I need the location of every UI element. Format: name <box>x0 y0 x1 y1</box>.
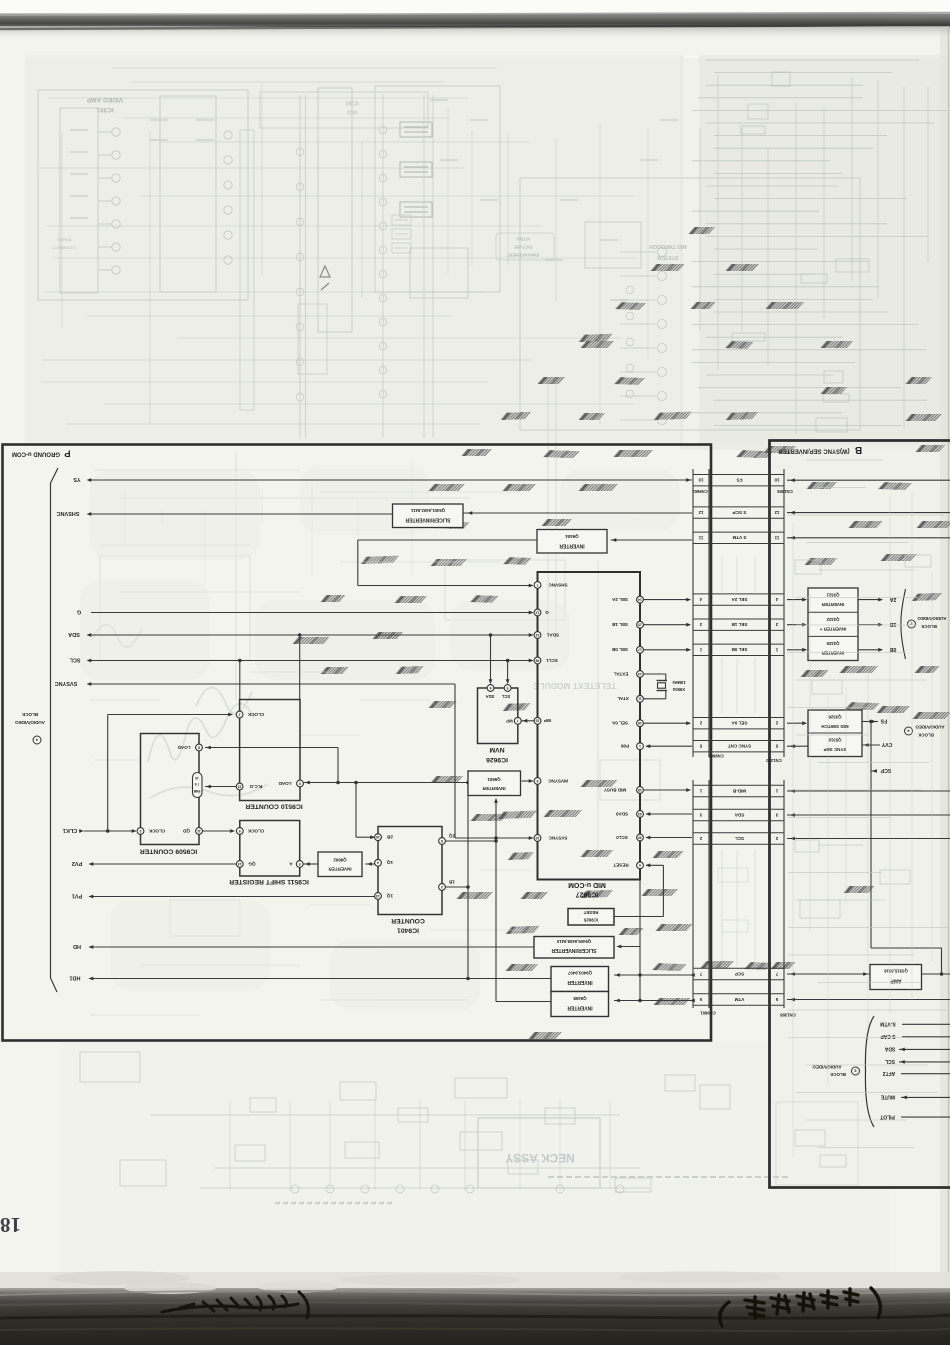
svg-text:Q3321: Q3321 <box>826 593 840 598</box>
wire WP <box>522 720 535 722</box>
svg-text:(W)SYNC SEP,INVERTER: (W)SYNC SEP,INVERTER <box>778 448 850 454</box>
riser SCL to IC9510 <box>239 661 241 700</box>
svg-text:SHSVNC: SHSVNC <box>57 510 80 516</box>
pin 15 SEL 1B <box>637 621 644 628</box>
svg-text:SYNC SEP: SYNC SEP <box>824 747 847 752</box>
wire riser496 to Q9408 <box>496 1001 551 1003</box>
svg-text:P.CONNECT: P.CONNECT <box>52 246 76 251</box>
connector row SCP pin 7 <box>693 967 784 969</box>
svg-text:VIDEO AMP: VIDEO AMP <box>86 96 123 103</box>
svg-text:SDA: SDA <box>486 694 495 699</box>
svg-text:S CAP: S CAP <box>880 1033 896 1039</box>
svg-text:ENB: ENB <box>193 789 200 793</box>
amp Q3315,3316 <box>870 965 922 990</box>
svg-text:X9504: X9504 <box>672 687 685 692</box>
svg-text:Q9404: Q9404 <box>565 534 579 539</box>
ghost mid verticals and circles <box>240 92 634 438</box>
wire VTM out <box>787 999 950 1001</box>
ghost bleed-through schematic (upper area) <box>38 60 947 434</box>
wire SEL 1B <box>644 624 691 626</box>
ghost bleed-through (right box interior) <box>788 460 948 1167</box>
svg-text:IC9627: IC9627 <box>576 891 599 898</box>
svg-text:MVSYNC: MVSYNC <box>547 778 567 783</box>
svg-text:AFT2: AFT2 <box>883 1070 896 1076</box>
svg-text:GROUND u-COM: GROUND u-COM <box>12 451 60 457</box>
ghost lines (left box interior) <box>90 459 530 1015</box>
wire 2A <box>858 599 882 601</box>
ghost box (bottom right) <box>776 1102 858 1185</box>
svg-text:WP: WP <box>544 718 551 723</box>
svg-text:SDA0: SDA0 <box>615 811 628 816</box>
crystal X9504 <box>644 673 666 675</box>
svg-text:HD: HD <box>73 943 81 949</box>
handwritten scribble (bottom right) <box>720 1288 881 1326</box>
svg-text:Q3322: Q3322 <box>826 617 840 622</box>
svg-text:IC9509 COUNTER: IC9509 COUNTER <box>140 848 198 855</box>
svg-text:17: 17 <box>638 648 642 652</box>
pin 13 EXTAL <box>637 671 644 678</box>
wire MID BUSY <box>644 789 691 791</box>
svg-text:18: 18 <box>638 788 642 792</box>
connector row SEL 1B pin 3 <box>693 618 784 620</box>
wire HD1 <box>89 978 551 980</box>
svg-text:S VTM: S VTM <box>732 535 746 540</box>
riser x468 <box>467 783 469 979</box>
wire CN 11 to Q9404 <box>611 539 693 541</box>
pin 8 2Q (IC9401) <box>439 838 446 845</box>
svg-text:6: 6 <box>489 686 491 690</box>
svg-text:RESET: RESET <box>613 863 629 868</box>
wire SCL0 <box>646 837 692 839</box>
svg-text:SDA: SDA <box>68 631 80 637</box>
ghost handwriting squiggles <box>92 624 268 798</box>
pin 13 QG (IC9511) <box>236 861 243 868</box>
svg-text:11: 11 <box>698 535 703 540</box>
inverter Q9601 <box>468 771 521 796</box>
svg-text:BLOCK: BLOCK <box>920 624 936 629</box>
wire 2Q <box>446 840 497 842</box>
svg-text:CN9602: CN9602 <box>692 489 708 494</box>
svg-text:VCU: VCU <box>346 108 357 114</box>
svg-text:39: 39 <box>638 835 642 839</box>
wire SCL <box>91 660 533 662</box>
svg-text:IC9510 COUNTER: IC9510 COUNTER <box>245 803 303 810</box>
svg-text:7 6: 7 6 <box>195 782 200 786</box>
svg-text:PILOT: PILOT <box>880 1113 895 1119</box>
wire IC9509 LOAD <box>205 747 338 749</box>
wire S SCP out <box>787 512 950 514</box>
pin 41 SDA1 <box>534 632 541 639</box>
scan artifact hatch marks <box>688 227 715 234</box>
wire SEL 0B <box>644 649 691 651</box>
label AUDIO/VIDEO BLOCK 2 <box>908 620 916 628</box>
wire SHSYNC to slicer <box>91 513 393 515</box>
ghost small component boxes <box>400 122 432 217</box>
page edge bar (top) <box>0 14 950 27</box>
wire SDA0 <box>646 813 692 815</box>
wire LOAD bus <box>304 782 469 784</box>
svg-text:LOAD: LOAD <box>177 745 191 750</box>
pin 14 SEL 2A <box>637 596 644 603</box>
svg-text:CN1309: CN1309 <box>777 489 793 494</box>
svg-text:3: 3 <box>139 829 141 833</box>
scan mottling (left box interior) <box>80 465 680 1010</box>
wire SCP row to Q9403 <box>614 974 692 976</box>
wire Q9602 to A <box>304 863 319 865</box>
pin 10 SVSYNC <box>534 835 541 842</box>
svg-text:Q9401,9402,9411: Q9401,9402,9411 <box>410 508 445 513</box>
svg-text:SEL 0B: SEL 0B <box>731 647 748 652</box>
pin 39 SCL0 <box>637 834 644 841</box>
pin 43 SDA0 <box>637 811 644 818</box>
svg-text:16: 16 <box>376 835 380 839</box>
brace audio/video block 2 <box>901 589 906 659</box>
svg-text:5: 5 <box>299 862 301 866</box>
counter IC9509 <box>141 734 200 845</box>
svg-text:11: 11 <box>197 829 201 833</box>
pin 16 2B (IC9401) <box>375 834 382 841</box>
wire SEL 0A <box>644 722 691 724</box>
pin 16 SEL 0A <box>637 720 644 727</box>
pin 20 WP <box>534 717 541 724</box>
ghost rails between strips <box>718 556 755 966</box>
svg-text:SOUND: SOUND <box>57 238 72 243</box>
svg-text:YS: YS <box>73 476 81 482</box>
pin 12 G <box>534 609 541 616</box>
svg-text:G: G <box>77 609 81 615</box>
svg-text:VTM: VTM <box>734 997 744 1002</box>
svg-text:MUTE: MUTE <box>880 1094 895 1100</box>
wire SCP row to AMP <box>787 973 870 975</box>
counter IC9401 <box>378 827 442 915</box>
svg-text:IC9626: IC9626 <box>486 756 508 763</box>
pin 15 R.C.O (IC9510) <box>236 783 243 790</box>
wire PV2 <box>89 863 237 865</box>
wire S VTM out <box>787 537 950 539</box>
svg-text:WP: WP <box>506 718 513 723</box>
wire SEL 2A to Q3321 <box>787 599 806 601</box>
svg-text:8: 8 <box>198 745 200 749</box>
svg-text:2A: 2A <box>889 596 896 602</box>
pin 2 CLOCK (IC9510) <box>236 711 243 718</box>
svg-text:TELETEXT MODULE: TELETEXT MODULE <box>533 681 616 691</box>
pin 7 WP (IC9626) <box>514 717 521 724</box>
svg-text:PV2: PV2 <box>72 860 82 866</box>
svg-text:LOAD: LOAD <box>278 781 292 786</box>
counter IC9510 <box>240 700 300 801</box>
svg-text:MID SWITCH: MID SWITCH <box>821 724 848 729</box>
svg-text:SDA1: SDA1 <box>546 632 559 637</box>
wire CVY <box>862 744 880 746</box>
pin 9 CLOCK (IC9511) <box>236 828 243 835</box>
svg-text:FS: FS <box>737 478 743 483</box>
svg-text:Q9601: Q9601 <box>487 777 501 782</box>
ghost caption lines <box>548 1176 788 1178</box>
svg-text:QD: QD <box>182 828 190 833</box>
signal bracket (left) <box>51 468 59 992</box>
svg-text:11: 11 <box>638 697 642 701</box>
svg-text:PICTURE: PICTURE <box>514 245 533 250</box>
mid switch / sync sep Q3326 Q5310 <box>808 710 862 757</box>
svg-text:SCL0: SCL0 <box>616 835 628 840</box>
connector row SEL 0B pin 1 <box>693 643 784 645</box>
svg-text:R.C.O: R.C.O <box>249 784 262 789</box>
nvm IC9626 <box>478 688 518 744</box>
svg-text:13: 13 <box>638 672 642 676</box>
svg-text:PV1: PV1 <box>72 893 82 899</box>
svg-text:16: 16 <box>638 721 642 725</box>
svg-text:11: 11 <box>774 535 779 540</box>
block frame B SYNC SEP.INVERTER <box>770 441 950 1188</box>
pin 1 P06 <box>637 743 644 750</box>
svg-text:13: 13 <box>238 862 242 866</box>
svg-text:QG: QG <box>248 861 256 866</box>
mcu IC9627 MID u-COM <box>538 572 641 880</box>
wire SCP stub <box>871 770 877 772</box>
label AUDIO/VIDEO BLOCK 4 (right) <box>905 727 913 735</box>
wire VTM row to Q9408 <box>614 1000 692 1002</box>
wire 0B <box>858 649 882 651</box>
svg-text:0B: 0B <box>889 646 896 652</box>
svg-text:15: 15 <box>638 623 642 627</box>
svg-text:SLICER/INVERTER: SLICER/INVERTER <box>405 516 450 522</box>
svg-text:ENHANCEMENT: ENHANCEMENT <box>506 253 539 258</box>
riser from MID corner x640 <box>639 880 641 1001</box>
pin 2 1B (IC9401) <box>439 884 446 891</box>
svg-text:BLOCK: BLOCK <box>21 712 38 717</box>
wire SEL 0A to Q3326 <box>787 722 806 724</box>
svg-text:CN9603: CN9603 <box>708 754 724 759</box>
svg-text:SCL: SCL <box>69 657 81 663</box>
inverter bank Q3321/Q3322/Q3325 <box>808 588 858 661</box>
svg-text:COUNTER: COUNTER <box>391 917 425 924</box>
svg-text:SCP: SCP <box>735 971 744 976</box>
svg-text:10: 10 <box>536 836 540 840</box>
wire MUTE <box>901 1096 950 1098</box>
inverter Q9403,9407 <box>551 967 609 992</box>
label AUDIO/VIDEO BLOCK 3 <box>852 1067 860 1075</box>
wire AMP out <box>922 973 950 975</box>
connector row S SCP pin 12 <box>693 506 784 508</box>
svg-text:10MHz: 10MHz <box>672 680 685 685</box>
svg-text:9: 9 <box>299 781 301 785</box>
svg-text:1: 1 <box>639 744 641 748</box>
svg-text:AUDIO/VIDEO: AUDIO/VIDEO <box>15 720 45 725</box>
pin 48 SCL1 <box>534 657 541 664</box>
svg-text:SYSTEM: SYSTEM <box>657 254 678 260</box>
connector row SYNC CNT pin 5 <box>693 740 784 742</box>
pin 11 QD (IC9509) <box>196 828 203 835</box>
svg-text:BLOCK: BLOCK <box>917 733 933 738</box>
svg-text:12: 12 <box>536 610 540 614</box>
wire PILOT <box>901 1116 950 1118</box>
ghost bleed-through schematic (lower area) <box>80 1052 730 1193</box>
svg-text:CLK1: CLK1 <box>63 827 77 833</box>
pin 3 CLOCK (IC9509) <box>137 828 144 835</box>
svg-text:CN1310: CN1310 <box>766 758 782 763</box>
wire SCL (right) <box>899 1061 950 1063</box>
svg-text:2: 2 <box>441 885 443 889</box>
wire S-VTM <box>902 1023 950 1025</box>
wire SYNC CNT from Q5310 <box>787 745 808 747</box>
svg-text:15: 15 <box>238 784 242 788</box>
wire HD <box>89 946 534 948</box>
inverter Q9408 <box>551 992 609 1017</box>
svg-text:IC351: IC351 <box>345 99 359 105</box>
svg-text:Q3325: Q3325 <box>826 641 840 646</box>
svg-text:1B: 1B <box>889 621 896 627</box>
svg-text:18: 18 <box>0 1213 21 1237</box>
svg-text:1Q: 1Q <box>387 893 394 898</box>
connector rails CN9602/CN1309 <box>692 469 694 757</box>
wire FS riser to AMP line <box>870 722 872 949</box>
wire YS <box>91 479 692 481</box>
wire PV1 <box>89 896 375 898</box>
svg-text:Q9602: Q9602 <box>333 858 347 863</box>
svg-text:1B: 1B <box>448 879 455 884</box>
wire 1B <box>446 886 469 888</box>
connector row SEL 2A pin 4 <box>693 593 784 595</box>
svg-text:SDA: SDA <box>734 812 744 817</box>
wire G <box>91 612 533 614</box>
pin 17 SEL 0B <box>637 646 644 653</box>
svg-text:12: 12 <box>698 510 703 515</box>
inverter Q9602 <box>318 852 362 877</box>
pin 8 LOAD (IC9509) <box>196 744 203 751</box>
svg-text:XTAL: XTAL <box>617 696 629 701</box>
page edge band (bottom) <box>0 1272 950 1290</box>
pin 9 LOAD (IC9510) <box>297 780 304 787</box>
svg-text:IC9511 SHIFT REGISTER: IC9511 SHIFT REGISTER <box>229 878 309 885</box>
svg-text:SEL 1B: SEL 1B <box>731 622 748 627</box>
connector row SDA pin 3 <box>693 808 784 810</box>
riser x496 (Q9601 feed) <box>495 799 497 1002</box>
svg-text:4: 4 <box>377 861 379 865</box>
block frame P GROUND u-COM <box>3 445 712 1041</box>
ghost triangle mark <box>320 266 330 277</box>
svg-text:EXTAL: EXTAL <box>613 671 628 676</box>
wire SDA <box>91 634 533 636</box>
pin 5 SCL (IC9626) <box>504 685 511 692</box>
pin 9 RESET <box>637 862 644 869</box>
wire Q9404 output to SHSYNC pin <box>358 539 537 541</box>
pin 18 MID BUSY <box>637 787 644 794</box>
wire SEL 2A <box>644 599 691 601</box>
svg-text:SEL 0B: SEL 0B <box>611 647 628 652</box>
svg-text:B: B <box>855 444 862 455</box>
wire P06 from SYNC CNT <box>646 745 692 747</box>
wire AFT2 <box>901 1073 950 1075</box>
svg-text:10: 10 <box>195 776 199 780</box>
pin 4 1Q (IC9401) <box>375 859 382 866</box>
wire SEL 1B to Q3322 <box>787 624 806 626</box>
brace audio/video block 3 <box>865 1016 874 1127</box>
connector row MID-B pin 1 <box>693 784 784 786</box>
svg-text:2: 2 <box>239 712 241 716</box>
svg-text:SHSVNC: SHSVNC <box>548 582 568 587</box>
pin 6 SDA (IC9626) <box>487 685 494 692</box>
slicer-inverter Q9401,9402,9411 <box>393 504 464 528</box>
wire IC9401 1Q to Q9602 <box>366 863 375 865</box>
svg-text:2B: 2B <box>386 835 393 840</box>
svg-text:SCL: SCL <box>735 836 744 841</box>
svg-text:BLOCK: BLOCK <box>829 1072 845 1077</box>
svg-text:IC301: IC301 <box>96 106 114 113</box>
svg-text:7: 7 <box>517 719 519 723</box>
ghost bleed-through (main block interior) <box>100 380 660 936</box>
wire SDA (right) <box>899 1048 950 1050</box>
svg-text:SEL 0A: SEL 0A <box>611 721 628 726</box>
svg-text:CLOCK: CLOCK <box>247 828 264 833</box>
svg-text:IC7302: IC7302 <box>516 237 530 242</box>
svg-text:Q5310: Q5310 <box>828 738 842 743</box>
svg-text:S SCP: S SCP <box>733 510 747 515</box>
wire SDA riser <box>490 635 492 684</box>
svg-text:CVY: CVY <box>881 741 892 747</box>
svg-text:SEL 0A: SEL 0A <box>731 721 748 726</box>
wire 2B riser <box>355 783 357 838</box>
pin 5 A (IC9511) <box>296 861 303 868</box>
svg-text:INVERTER: INVERTER <box>821 602 845 607</box>
svg-text:SYNC CNT: SYNC CNT <box>728 744 752 749</box>
pin 8 MVSYNC <box>534 778 541 785</box>
pin 11 XTAL <box>637 695 644 702</box>
wire SEL 0B to Q3325 <box>787 649 806 651</box>
svg-text:INVERTER: INVERTER <box>821 651 845 656</box>
riser SDA to IC9510 <box>299 635 301 700</box>
svg-text:P06: P06 <box>620 744 629 749</box>
svg-text:CLOCK: CLOCK <box>247 712 264 717</box>
svg-text:9: 9 <box>239 829 241 833</box>
wire SCL out <box>787 838 950 840</box>
svg-text:INVERTER: INVERTER <box>567 979 593 985</box>
connector row SEL 0A pin 2 <box>693 717 784 719</box>
svg-text:RESET: RESET <box>583 910 598 915</box>
svg-text:INVERTER +: INVERTER + <box>819 627 846 632</box>
svg-text:INVERTER: INVERTER <box>328 866 352 871</box>
shift register IC9511 <box>240 821 300 877</box>
wire RCO to ENB <box>205 786 236 788</box>
svg-text:Q3315,3316: Q3315,3316 <box>884 969 908 974</box>
svg-text:SCL: SCL <box>885 1058 895 1064</box>
svg-text:MID BUSY: MID BUSY <box>604 787 626 792</box>
svg-text:13: 13 <box>376 894 380 898</box>
svg-text:NECK ASSY: NECK ASSY <box>505 1151 575 1165</box>
wire QD to IC9511 clock <box>203 830 235 832</box>
svg-text:INVERTER: INVERTER <box>559 542 585 548</box>
svg-text:20: 20 <box>536 719 540 723</box>
svg-text:NVM: NVM <box>489 746 504 753</box>
svg-text:SVSYNC: SVSYNC <box>548 835 568 840</box>
svg-text:SEL 2A: SEL 2A <box>611 597 628 602</box>
svg-text:FS: FS <box>880 718 887 724</box>
svg-text:G: G <box>545 610 549 615</box>
svg-text:HD1: HD1 <box>69 975 80 981</box>
svg-text:MID-B: MID-B <box>732 788 746 793</box>
svg-text:8: 8 <box>536 779 538 783</box>
svg-text:INVERTER: INVERTER <box>482 786 506 791</box>
pin 13 1Q (IC9401) <box>375 893 382 900</box>
wire to slicer <box>617 946 640 948</box>
svg-text:CLOCK: CLOCK <box>148 828 165 833</box>
wire 1B out <box>858 624 882 626</box>
wire slicer to CN9602 pin 12 <box>463 512 692 514</box>
svg-text:SCL: SCL <box>501 694 510 699</box>
connector row SCL pin 2 <box>693 832 784 834</box>
reset ic IC9625 <box>568 909 614 926</box>
svg-text:SVSYNC: SVSYNC <box>55 680 78 686</box>
svg-text:10: 10 <box>774 478 779 483</box>
